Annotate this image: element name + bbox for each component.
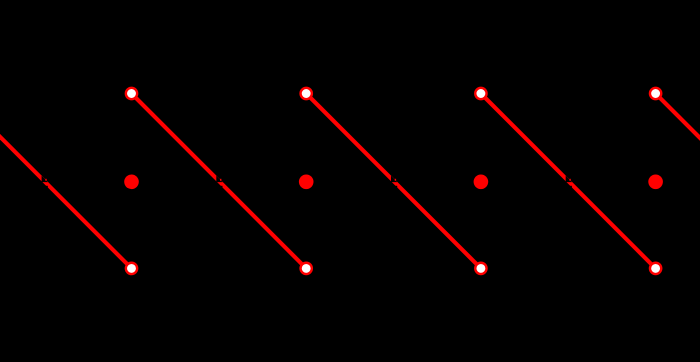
arrowhead on line 2 xyxy=(216,176,222,188)
arrowhead on line 1 xyxy=(42,176,48,188)
node: bottom open circle column 3 xyxy=(475,263,486,274)
wire: hop line column 1 top to column 2 bottom xyxy=(132,94,307,269)
node: middle filled dot column 3 xyxy=(474,175,489,190)
node: bottom open circle column 1 xyxy=(126,263,137,274)
node: middle filled dot column 2 xyxy=(299,175,314,190)
node: middle filled dot column 1 xyxy=(124,175,139,190)
wire: hop line exiting right from column 4 top xyxy=(656,94,700,269)
node: bottom open circle column 4 xyxy=(650,263,661,274)
wire: hop line column 2 top to column 3 bottom xyxy=(306,94,481,269)
arrowhead on line 4 xyxy=(566,176,572,188)
wire: hop line column 3 top to column 4 bottom xyxy=(481,94,656,269)
node: middle filled dot column 4 xyxy=(648,175,663,190)
node: top open circle column 3 xyxy=(475,88,486,99)
arrowhead on line 3 xyxy=(391,176,397,188)
node: bottom open circle column 2 xyxy=(301,263,312,274)
node: top open circle column 1 xyxy=(126,88,137,99)
node: top open circle column 2 xyxy=(301,88,312,99)
wire: hop line entering from left to bottom node of column 1 xyxy=(0,94,131,269)
node: top open circle column 4 xyxy=(650,88,661,99)
